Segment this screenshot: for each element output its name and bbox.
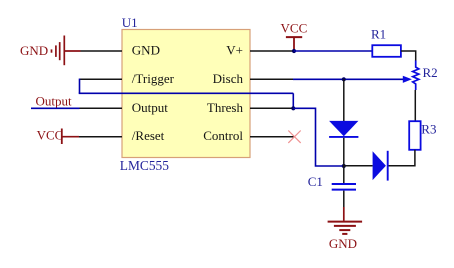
pin 5 Control wire [250, 136, 295, 138]
svg-text:/Reset: /Reset [132, 128, 165, 143]
junction C1 node [342, 164, 346, 168]
wire trigger down [79, 79, 81, 94]
svg-text:Disch: Disch [213, 71, 244, 86]
svg-text:GND: GND [132, 43, 160, 58]
pin 2 /Trigger wire [80, 78, 123, 80]
svg-text:Control: Control [203, 128, 243, 143]
pin 1 GND wire [81, 50, 123, 52]
svg-text:R2: R2 [423, 65, 438, 80]
wire D1 to node [343, 138, 345, 166]
wire V+ to R1 [294, 50, 372, 52]
wire node to D2 [344, 165, 373, 167]
wire trigger across [79, 92, 294, 94]
svg-text:U1: U1 [122, 15, 138, 30]
wire Thresh to cap node [293, 108, 344, 166]
power port GND (left) [20, 36, 81, 66]
svg-text:R3: R3 [421, 122, 436, 137]
wire Disch to R2 wiper [293, 78, 404, 80]
wire Output [31, 107, 80, 109]
svg-text:V+: V+ [226, 43, 243, 58]
wire trigger to thresh node [292, 93, 294, 108]
svg-text:/Trigger: /Trigger [132, 71, 175, 86]
svg-text:R1: R1 [371, 27, 386, 42]
svg-text:C1: C1 [308, 174, 323, 189]
pin 8 V+ wire [250, 50, 294, 52]
no-ERC marker on Control [288, 131, 300, 143]
junction Disch / D1 [342, 77, 346, 81]
diode D1 [329, 121, 358, 136]
svg-text:GND: GND [20, 43, 48, 58]
wire R1 to R2 [401, 51, 416, 61]
power port GND (bottom, earth) [328, 207, 363, 251]
power port VCC (left) [37, 127, 79, 144]
diode D2 [373, 151, 386, 180]
pin 4 /Reset wire [79, 136, 122, 138]
junction VCC / V+ [292, 49, 296, 53]
svg-text:Output: Output [132, 100, 169, 115]
svg-text:GND: GND [329, 236, 357, 251]
wire Disch junction down to D1 [343, 79, 345, 121]
IC U1 LMC555 body [122, 30, 250, 158]
svg-text:VCC: VCC [37, 127, 64, 142]
svg-text:Output: Output [36, 93, 73, 108]
R2 wiper arrow [403, 76, 412, 83]
svg-text:LMC555: LMC555 [120, 158, 169, 173]
pin 7 Disch wire [250, 78, 293, 80]
pin 6 Thresh wire [250, 107, 293, 109]
power port VCC (top) [281, 20, 308, 51]
svg-text:VCC: VCC [281, 20, 308, 35]
wire C1 to ground [343, 191, 345, 207]
junction Thresh / trigger [291, 106, 295, 110]
svg-text:Thresh: Thresh [207, 100, 244, 115]
wire R2 to R3 [414, 90, 416, 121]
pin 3 Output wire [80, 107, 123, 109]
wire R3 to D2 [388, 150, 415, 166]
